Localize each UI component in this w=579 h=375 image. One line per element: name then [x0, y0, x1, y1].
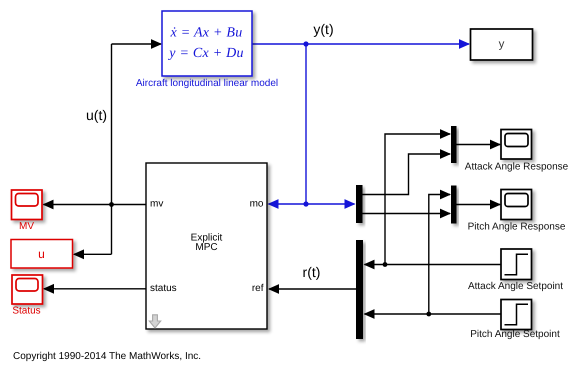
- svg-text:Pitch Angle Setpoint: Pitch Angle Setpoint: [470, 329, 560, 340]
- svg-text:Status: Status: [12, 306, 40, 317]
- svg-text:Aircraft longitudinal linear m: Aircraft longitudinal linear model: [136, 78, 278, 89]
- svg-text:mo: mo: [250, 199, 264, 210]
- svg-text:mv: mv: [150, 199, 163, 210]
- svg-text:Copyright 1990-2014 The MathWo: Copyright 1990-2014 The MathWorks, Inc.: [13, 351, 201, 362]
- svg-text:Pitch Angle Response: Pitch Angle Response: [468, 222, 566, 233]
- svg-text:MV: MV: [19, 221, 34, 232]
- svg-text:MPC: MPC: [195, 242, 217, 253]
- svg-text:u(t): u(t): [86, 107, 107, 123]
- svg-text:Attack Angle Setpoint: Attack Angle Setpoint: [468, 281, 563, 292]
- svg-text:y(t): y(t): [313, 21, 333, 37]
- svg-text:y = Cx + Du: y = Cx + Du: [167, 46, 244, 61]
- svg-text:ref: ref: [252, 283, 264, 294]
- svg-text:r(t): r(t): [303, 264, 321, 280]
- svg-text:u: u: [38, 247, 45, 261]
- svg-text:y: y: [499, 39, 505, 51]
- svg-text:status: status: [150, 283, 177, 294]
- svg-text:ẋ = Ax + Bu: ẋ = Ax + Bu: [170, 26, 243, 41]
- svg-text:Attack Angle Response: Attack Angle Response: [465, 162, 569, 173]
